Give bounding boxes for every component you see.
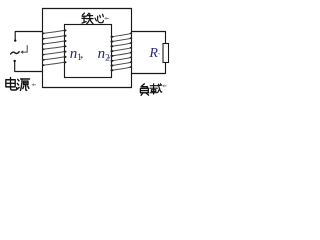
svg-text:R: R	[148, 46, 158, 61]
secondary winding n2 (7 turns)	[111, 33, 131, 70]
wire bottom horizontal	[43, 87, 132, 89]
wire top horizontal	[43, 8, 132, 10]
primary winding n1 (7 turns)	[43, 30, 65, 65]
artifact return arrow after ~	[22, 46, 27, 53]
label yuan (source) of 电源	[17, 79, 29, 91]
artifact mark after n2	[107, 56, 110, 59]
label xin (core) of 铁心	[95, 14, 103, 22]
label tie (iron) of 铁心	[82, 13, 93, 24]
wire source top lead	[15, 32, 42, 40]
artifact arrow after 电源	[31, 83, 34, 86]
artifact mark after n1	[80, 56, 83, 59]
artifact mark after R	[158, 53, 160, 55]
label zai (load) of 负载	[150, 84, 162, 94]
artifact arrow after 铁心	[104, 17, 106, 20]
iron core	[65, 25, 112, 78]
terminal source top	[14, 39, 16, 41]
wire load bottom branch	[132, 63, 166, 74]
label fu (load) of 负载	[140, 84, 148, 96]
wire right vertical	[131, 9, 133, 88]
wire left vertical	[42, 9, 44, 88]
wire load top branch	[132, 32, 166, 44]
AC source symbol ~	[11, 52, 20, 54]
terminal source bottom	[14, 60, 16, 62]
label dian (electric) of 电源	[6, 78, 17, 90]
artifact arrow after 负载	[162, 84, 164, 87]
wire source bottom lead	[15, 62, 43, 71]
resistor R box	[163, 44, 169, 63]
